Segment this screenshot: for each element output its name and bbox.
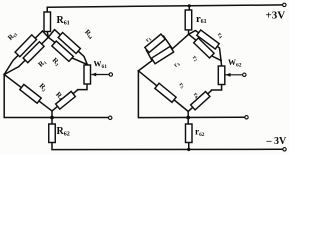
svg-text:R62: R62	[57, 126, 70, 137]
wire left vertex to output terminal line	[4, 75, 109, 118]
wire left bridge lower-left arm	[4, 75, 52, 112]
resistor R3 (left upper-right inner)	[52, 41, 74, 61]
resistor r1 (right upper-left outer)	[145, 34, 165, 52]
svg-text:r5: r5	[178, 81, 187, 90]
resistor R4 (left lower-right)	[56, 91, 76, 109]
svg-text:r4: r4	[216, 31, 225, 40]
wire right bridge lower-left arm	[138, 71, 188, 112]
resistor r62 (bottom supply)	[186, 124, 193, 143]
svg-text:W61: W61	[94, 60, 108, 70]
svg-text:Rt4: Rt4	[83, 28, 96, 41]
potentiometer W61 body	[84, 65, 91, 84]
wire potentiometer W62 bottom connection	[212, 85, 222, 91]
resistor R61 (top supply)	[44, 12, 51, 32]
potentiometer W62 body	[218, 66, 225, 85]
wire right bridge upper-right inner branch	[189, 34, 221, 60]
svg-text:r2: r2	[191, 54, 200, 63]
wire r62 to bottom rail	[188, 143, 190, 150]
svg-text:Rt3: Rt3	[6, 29, 19, 42]
terminal circle -3V	[283, 148, 286, 151]
wire right bridge bottom node stub	[187, 111, 189, 124]
resistor r61 (top supply)	[185, 10, 192, 30]
terminal circle W61 wiper output	[109, 73, 112, 76]
wire right bridge lower-right arm	[188, 90, 211, 111]
svg-text:+3V: +3V	[266, 10, 286, 22]
terminal circle W62 wiper output	[243, 73, 246, 76]
wire right bridge upper-right outer branch	[189, 31, 221, 61]
wire right bridge upper-left inner branch	[138, 34, 188, 71]
wire left bridge bottom node stub	[51, 111, 53, 124]
arrowhead W61 wiper	[91, 73, 96, 77]
resistor r3 (right upper-left inner)	[152, 46, 174, 63]
terminal circle right bridge output	[245, 116, 248, 119]
wire top supply rail +3V	[47, 5, 282, 12]
junction dot r61 on top rail	[188, 4, 191, 7]
resistor R62 (bottom supply)	[49, 124, 56, 143]
svg-text:R61: R61	[57, 15, 70, 26]
wire left bridge upper-right inner branch	[48, 37, 87, 64]
wire right vertex to output terminal line	[138, 71, 244, 118]
wire pot W62 top lead	[220, 61, 223, 67]
wire left bridge upper-left inner branch	[4, 37, 48, 74]
wire potentiometer W61 bottom connection	[78, 84, 88, 90]
wire r61 to top rail	[188, 6, 190, 10]
resistor r2 (right upper-right inner)	[194, 38, 214, 58]
svg-text:r62: r62	[195, 128, 205, 138]
resistor R2 (left lower-left)	[20, 84, 41, 103]
wire right bridge upper-left outer branch bars	[147, 36, 173, 60]
resistor Rt3 (left upper-left outer)	[15, 35, 36, 57]
junction dot left bridge bottom node	[50, 116, 54, 120]
svg-text:– 3V: – 3V	[266, 136, 288, 147]
wire left bridge supply resistor to bridge top node	[47, 32, 48, 38]
arrowhead W62 wiper	[226, 73, 231, 77]
wire right bridge upper-left outer centerline	[147, 36, 164, 50]
resistor R1 (left upper-left inner)	[23, 42, 44, 63]
wire bottom supply rail -3V	[52, 143, 283, 150]
resistor Rt4 (left upper-right outer)	[58, 33, 80, 54]
resistor r5 (right lower-left)	[155, 83, 176, 102]
svg-text:r61: r61	[196, 14, 207, 25]
junction dot r62 on bottom rail	[187, 148, 190, 151]
wire W62 wiper lead	[226, 74, 243, 76]
wire left bridge upper-left outer branch	[4, 31, 48, 75]
resistor r4 (right upper-right outer)	[197, 30, 219, 49]
svg-text:r3: r3	[172, 60, 181, 69]
svg-text:W62: W62	[228, 58, 242, 68]
resistor r6 (right lower-right)	[191, 92, 210, 110]
svg-text:R3: R3	[51, 56, 63, 68]
terminal circle +3V	[283, 3, 286, 6]
terminal circle left bridge output	[109, 116, 112, 119]
wire left bridge lower-right arm	[52, 90, 78, 111]
svg-text:R1: R1	[37, 57, 49, 69]
wire left bridge upper-right outer branch	[48, 30, 87, 65]
junction dot right bridge bottom node	[186, 116, 190, 120]
wire right bridge supply resistor to bridge top node	[188, 30, 190, 34]
wire W61 wiper lead	[92, 74, 109, 76]
svg-text:R2: R2	[38, 82, 50, 94]
